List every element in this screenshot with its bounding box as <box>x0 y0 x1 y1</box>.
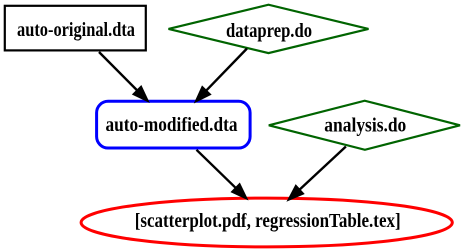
svg-text:auto-modified.dta: auto-modified.dta <box>106 114 238 136</box>
svg-text:auto-original.dta: auto-original.dta <box>17 19 135 41</box>
svg-text:analysis.do: analysis.do <box>324 115 406 137</box>
svg-text:[scatterplot.pdf, regressionTa: [scatterplot.pdf, regressionTable.tex] <box>135 210 401 232</box>
svg-text:dataprep.do: dataprep.do <box>226 20 312 42</box>
